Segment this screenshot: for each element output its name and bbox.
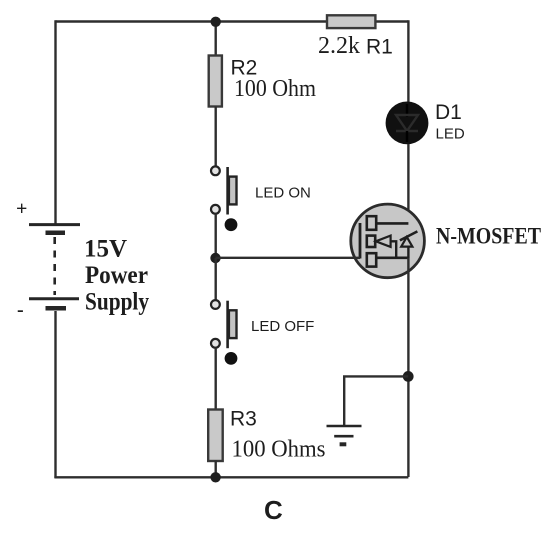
wire left branch negative xyxy=(54,311,56,478)
LED D1 xyxy=(386,102,429,145)
svg-text:100 Ohm: 100 Ohm xyxy=(234,76,316,102)
node junction gate xyxy=(210,253,220,263)
wire middle branch top xyxy=(214,22,216,56)
svg-text:R1: R1 xyxy=(366,36,393,59)
wire R3 to bottom rail xyxy=(214,461,216,478)
ground symbol xyxy=(327,426,362,444)
wire gate node to MOSFET gate xyxy=(216,257,361,259)
wire left branch positive xyxy=(54,20,56,224)
pushbutton switch LED OFF xyxy=(211,300,237,365)
svg-text:D1: D1 xyxy=(435,101,462,124)
wire gate node to LED OFF switch xyxy=(214,258,216,300)
wire top rail right xyxy=(375,20,408,22)
svg-text:-: - xyxy=(17,299,24,321)
svg-text:+: + xyxy=(16,198,27,220)
svg-text:LED ON: LED ON xyxy=(255,185,311,202)
wire top rail left xyxy=(56,20,328,22)
wire right branch R1 to LED xyxy=(407,20,409,102)
wire LED ON switch to gate node xyxy=(214,214,216,259)
wire R2 to LED ON switch xyxy=(214,107,216,167)
svg-text:2.2k: 2.2k xyxy=(318,33,360,59)
battery B1 xyxy=(29,225,80,309)
N-MOSFET Q1 xyxy=(351,204,425,278)
node junction ground branch xyxy=(403,371,414,382)
svg-text:C: C xyxy=(264,495,283,525)
svg-text:LED: LED xyxy=(436,126,465,143)
wire ground branch xyxy=(344,376,408,425)
resistor R2 xyxy=(209,56,222,107)
wire MOSFET source to ground node xyxy=(407,258,409,477)
svg-text:15V: 15V xyxy=(84,236,127,263)
svg-text:N-MOSFET: N-MOSFET xyxy=(436,224,541,249)
node junction bottom xyxy=(210,472,220,482)
svg-text:100 Ohms: 100 Ohms xyxy=(232,437,326,463)
svg-text:R3: R3 xyxy=(230,408,257,431)
resistor R1 xyxy=(327,15,375,28)
svg-text:LED OFF: LED OFF xyxy=(251,318,314,335)
resistor R3 xyxy=(208,410,223,462)
wire LED OFF switch to R3 xyxy=(214,348,216,410)
wire bottom rail xyxy=(54,476,408,478)
node junction top xyxy=(211,17,221,27)
wire LED to MOSFET drain xyxy=(407,144,409,233)
pushbutton switch LED ON xyxy=(211,166,237,231)
svg-text:Supply: Supply xyxy=(85,289,149,316)
svg-text:Power: Power xyxy=(85,262,148,289)
